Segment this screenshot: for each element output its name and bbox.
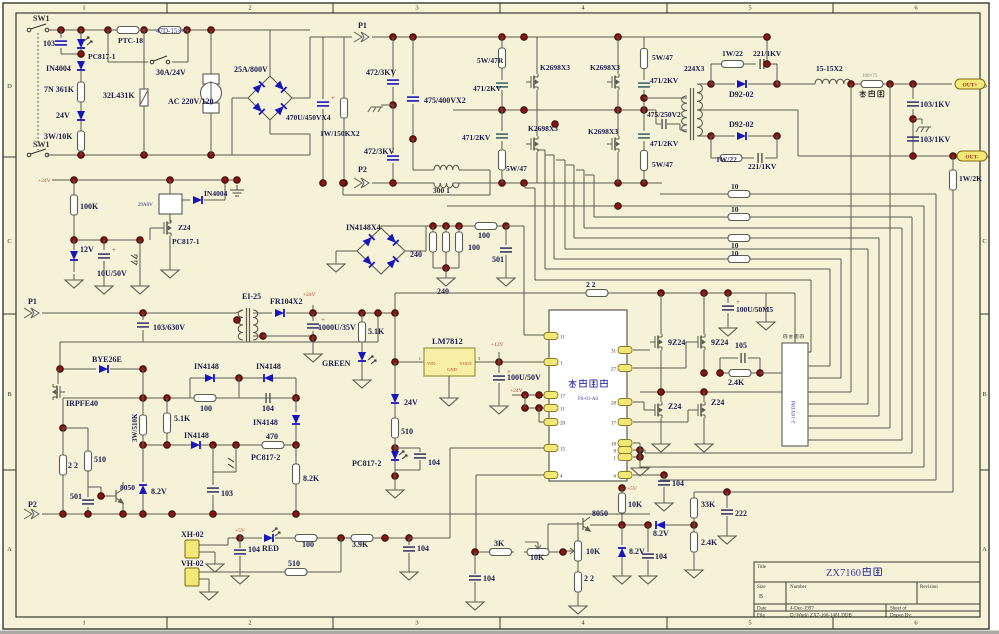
junction: [359, 310, 366, 317]
svg-text:103/1KV: 103/1KV: [920, 135, 950, 144]
snubber lower 1W/22: [710, 136, 712, 158]
junction: [293, 511, 300, 518]
wire bypass switch 30A/24V: [107, 30, 109, 62]
wire module pin20 row: [539, 421, 544, 423]
svg-text:510: 510: [288, 559, 300, 568]
junction: [521, 107, 528, 114]
diode IN4004 relay clamp: [182, 199, 190, 201]
pin 27 right: [618, 365, 632, 372]
main transformer T1: [682, 96, 687, 132]
wire base network: [100, 487, 102, 496]
junction: [910, 116, 917, 123]
svg-text:Z24: Z24: [668, 402, 681, 411]
svg-text:24V: 24V: [404, 398, 418, 407]
junction: [140, 310, 147, 317]
svg-text:EI-25: EI-25: [242, 292, 261, 301]
wire P1 lower rail: [42, 312, 236, 314]
resistor PTC-18: [110, 27, 146, 34]
transistor 9Z24 a: [650, 334, 662, 350]
ground 8.2V bottom: [613, 570, 631, 584]
svg-text:2.4K: 2.4K: [728, 378, 745, 387]
wire LM7812 out: [475, 361, 544, 363]
resistor 2.2 left: [62, 428, 64, 450]
ground 222: [718, 530, 736, 544]
bus descent x830: [829, 269, 831, 366]
svg-text:104: 104: [417, 544, 429, 553]
IC interface header: [782, 343, 808, 446]
resistor 510 left: [63, 427, 88, 429]
resistor 240 c: [456, 226, 463, 258]
ground pin cluster: [631, 462, 649, 476]
svg-text:7N 361K: 7N 361K: [44, 85, 75, 94]
bus bottom line y453: [645, 452, 912, 454]
junction: [708, 133, 715, 140]
svg-text:5: 5: [748, 5, 751, 12]
IC control module box: [549, 310, 627, 481]
junction: [105, 27, 112, 34]
wire gate drive stair 6: [583, 170, 585, 228]
wire pot to rheostat: [552, 551, 566, 553]
switch: [150, 56, 170, 64]
interface stub y378: [808, 377, 841, 379]
junction: [560, 549, 567, 556]
junction: [615, 180, 622, 187]
junction: [392, 359, 399, 366]
wire sense bottom rail: [433, 267, 459, 269]
junction: [164, 395, 171, 402]
top margin tick 2: [332, 3, 334, 13]
capacitor 221/1KV upper: [748, 63, 756, 65]
svg-text:100U/50V: 100U/50V: [507, 373, 541, 382]
junction: [236, 375, 243, 382]
svg-text:5W/47: 5W/47: [652, 53, 673, 62]
svg-text:K2698X3: K2698X3: [540, 63, 570, 72]
capacitor 472/3KV upper: [392, 37, 394, 77]
diode IN4004 input: [77, 61, 85, 70]
capacitor 471/2KV snubber 2: [501, 110, 503, 131]
wire to chassis ground output: [913, 118, 922, 120]
svg-text:4-Dec-1997: 4-Dec-1997: [790, 607, 814, 612]
ground 100U/50M5: [719, 322, 737, 336]
svg-text:510: 510: [94, 455, 106, 464]
junction: [406, 535, 413, 542]
pin 17 right: [618, 419, 632, 426]
svg-text:P2: P2: [28, 500, 37, 509]
junction: [615, 107, 622, 114]
junction: [503, 223, 510, 230]
svg-text:471/2KV: 471/2KV: [650, 76, 679, 85]
interface stub y428: [808, 427, 890, 429]
chassis ground mains filter: [368, 107, 383, 112]
bus descent x852 from output rail: [850, 84, 852, 392]
bus run 6 y249: [565, 248, 868, 250]
svg-text:470: 470: [266, 432, 278, 441]
pin 17 left: [544, 392, 558, 399]
wire led row: [320, 537, 348, 539]
port arrow P1: [354, 32, 369, 42]
wire VH row join: [310, 571, 341, 573]
junction: [641, 95, 648, 102]
wire top loop y342: [60, 341, 378, 343]
wire to 104 right: [376, 537, 410, 539]
svg-text:30A/24V: 30A/24V: [156, 68, 186, 77]
resistor 2.4K driver: [720, 370, 760, 377]
svg-text:3: 3: [415, 5, 418, 12]
wire row 445: [143, 444, 296, 446]
junction: [60, 511, 67, 518]
resistor 33K: [691, 496, 698, 520]
svg-text:RED: RED: [262, 544, 279, 553]
junction: [757, 370, 764, 377]
wire primary continues: [453, 182, 459, 184]
svg-text:10K: 10K: [628, 500, 643, 509]
svg-text:D92-02: D92-02: [729, 90, 753, 99]
potentiometer 10K: [524, 549, 552, 556]
svg-text:B: B: [759, 594, 763, 600]
junction: [210, 442, 217, 449]
capacitor 470U/450VX4: [322, 37, 324, 99]
bus bottom line y480: [660, 479, 936, 481]
diode IN4148 row445: [191, 441, 200, 449]
resistor 1W/150KX2: [343, 37, 345, 96]
regulator LM7812: [424, 348, 475, 376]
junction: [375, 310, 382, 317]
svg-text:IN4148: IN4148: [194, 362, 219, 371]
diode D92-02 lower: [711, 135, 735, 137]
svg-text:103/1KV: 103/1KV: [920, 100, 950, 109]
bus descent x868: [867, 249, 869, 404]
capacitor 103/630V: [142, 313, 144, 320]
left margin tick 2: [3, 313, 16, 315]
wire VH pin2: [199, 578, 209, 580]
junction: [71, 237, 78, 244]
label shunt chinese: [859, 90, 866, 97]
wire bottom AC rail: [47, 154, 310, 156]
ground CT bridge: [327, 258, 345, 272]
svg-text:10: 10: [731, 205, 739, 214]
port arrow P2 lower: [24, 509, 39, 519]
ground sense resistors: [437, 272, 455, 286]
ground sense: [445, 268, 447, 272]
transformer EI-25: [238, 310, 243, 340]
junction: [390, 34, 397, 41]
wire 9Z24a gate: [633, 349, 650, 351]
junction: [234, 317, 241, 324]
junction: [210, 511, 217, 518]
svg-text:32L431K: 32L431K: [103, 91, 135, 100]
svg-text:Drawn By:: Drawn By:: [890, 614, 912, 619]
zener 24V aux: [394, 362, 396, 394]
junction: [78, 27, 85, 34]
junction: [140, 395, 147, 402]
wire CT secondary return: [343, 194, 490, 196]
bottom margin tick 2: [332, 617, 334, 629]
svg-text:471/2KV: 471/2KV: [650, 139, 679, 148]
wire CT secondary right: [459, 169, 490, 171]
svg-text:P2: P2: [358, 165, 367, 174]
svg-text:104: 104: [262, 404, 274, 413]
transistor K2698X3 Q1: [526, 74, 538, 90]
svg-text:Size: Size: [757, 585, 766, 590]
transistor Z24 relay driver: [159, 220, 171, 236]
junction: [645, 522, 652, 529]
junction: [57, 366, 64, 373]
interface stub y416: [808, 415, 879, 417]
junction: [98, 493, 105, 500]
ground 104 led: [231, 570, 249, 584]
capacitor 501: [505, 226, 507, 245]
svg-text:OUT+: OUT+: [962, 83, 977, 89]
junction: [341, 180, 348, 187]
svg-text:IN4004: IN4004: [204, 189, 228, 198]
svg-text:C: C: [7, 238, 11, 245]
wire 239 vertical: [238, 378, 240, 398]
junction: [774, 133, 781, 140]
ground CT bridge: [336, 250, 357, 252]
wire module pin15 wire: [450, 447, 544, 449]
svg-text:+24V: +24V: [303, 292, 316, 298]
transistor K2698X3 Q3: [526, 136, 538, 152]
junction: [410, 34, 417, 41]
diode IN4148 vertical: [295, 398, 297, 412]
junction: [724, 489, 731, 496]
junction: [390, 102, 397, 109]
svg-text:104: 104: [248, 545, 260, 554]
svg-text:472/3KV: 472/3KV: [366, 68, 396, 77]
svg-text:GND: GND: [447, 367, 457, 372]
opto PC817-2 LED side: [394, 448, 396, 451]
junction: [717, 370, 724, 377]
switch: [27, 149, 49, 157]
svg-text:100×75: 100×75: [862, 74, 878, 79]
svg-text:8050: 8050: [120, 483, 135, 492]
wire gate drive stair 7: [593, 175, 595, 217]
junction: [140, 366, 147, 373]
junction: [950, 153, 957, 160]
junction: [141, 152, 148, 159]
interface stub y392: [808, 391, 851, 393]
wire Z24a gate: [633, 401, 644, 403]
junction: [85, 511, 92, 518]
wire secondary bottom tap: [697, 135, 711, 137]
svg-text:11: 11: [560, 408, 565, 413]
bottom margin tick 3: [499, 617, 501, 629]
transistor K2698X3 Q4: [607, 136, 619, 152]
bus bottom line y467: [640, 466, 924, 468]
capacitor 471/2KV snubber 1: [501, 70, 503, 80]
capacitor 104 led: [239, 538, 241, 548]
svg-text:10: 10: [731, 249, 739, 258]
bus descent x879: [878, 238, 880, 416]
transistor: [109, 489, 123, 503]
wire 296 vertical: [295, 378, 297, 398]
svg-text:10K: 10K: [586, 547, 601, 556]
junction: [701, 290, 708, 297]
ground 104 bottom c: [639, 570, 657, 584]
wire P2 lower rail: [42, 513, 650, 515]
svg-text:475/400VX2: 475/400VX2: [424, 96, 466, 105]
junction: [522, 392, 529, 399]
bridge IN4148X4: [357, 228, 405, 274]
wire gate drive stair 3: [553, 155, 555, 259]
svg-text:1W/22: 1W/22: [722, 49, 743, 58]
svg-text:8.2K: 8.2K: [303, 474, 320, 483]
diode D92-02 upper: [711, 83, 735, 85]
resistor 5W/47R snubber 1: [501, 37, 503, 46]
varistor 32L431K: [143, 30, 145, 89]
svg-text:103: 103: [43, 39, 55, 48]
junction: [137, 237, 144, 244]
right margin tick 3: [980, 469, 989, 471]
current transformer 300:1 secondary: [434, 165, 459, 170]
bus descent x912: [911, 217, 913, 453]
capacitor 100U/50V: [498, 362, 500, 373]
junction: [499, 34, 506, 41]
junction: [141, 27, 148, 34]
resistor 240 b: [443, 226, 450, 258]
svg-text:Z24: Z24: [711, 398, 724, 407]
pin 31 right: [618, 347, 632, 354]
svg-text:PS-01-A0: PS-01-A0: [578, 397, 599, 402]
junction: [60, 425, 67, 432]
wire 8050 base chain: [577, 522, 579, 536]
svg-text:24V: 24V: [56, 111, 70, 120]
pin 4 left: [544, 472, 558, 479]
wire 1W/2K down to feedback: [952, 192, 954, 492]
svg-text:+12V: +12V: [491, 342, 504, 348]
capacitor 103 mid: [212, 445, 214, 485]
bus run 5 y238 with resistor 10: [574, 237, 729, 239]
diode IN4148 row378 right: [264, 374, 273, 382]
zener 12V: [73, 240, 75, 250]
zener 8.2V bottom: [621, 525, 623, 545]
junction: [496, 359, 503, 366]
junction: [615, 203, 622, 210]
svg-text:104: 104: [483, 574, 495, 583]
top margin tick 1: [166, 3, 168, 13]
wire to chassis ground: [381, 104, 393, 106]
svg-text:8.2V: 8.2V: [151, 487, 167, 496]
wire bridge out right: [405, 250, 426, 252]
wire gate drive stair 1: [534, 188, 536, 280]
ground XH: [206, 558, 224, 572]
junction: [78, 152, 85, 159]
svg-text:VOUT: VOUT: [460, 361, 473, 366]
svg-text:2 2: 2 2: [586, 280, 596, 289]
junction: [774, 81, 781, 88]
wire 8050 collector row: [590, 524, 652, 526]
svg-text:105: 105: [735, 341, 747, 350]
capacitor 221/1KV lower: [746, 157, 754, 159]
svg-text:103: 103: [221, 489, 233, 498]
wire P2 rail: [372, 182, 434, 184]
wire 8050 base lead: [548, 523, 576, 525]
svg-text:10U/50V: 10U/50V: [97, 269, 127, 278]
junction: [708, 81, 715, 88]
svg-text:18: 18: [611, 443, 617, 448]
junction: [234, 177, 241, 184]
svg-text:LM7812: LM7812: [432, 336, 463, 346]
junction: [641, 107, 648, 114]
wire aux dc rail: [313, 312, 395, 314]
wire rectifier output join: [777, 83, 815, 85]
junction: [164, 442, 171, 449]
label control module: [569, 379, 577, 387]
svg-text:IRPFE40: IRPFE40: [66, 399, 98, 408]
wire feedback node: [694, 491, 953, 493]
svg-text:Number: Number: [790, 585, 807, 590]
pin 8 right: [618, 447, 632, 454]
wire Z24b source: [703, 418, 705, 438]
svg-text:3W/510K: 3W/510K: [131, 413, 139, 442]
diode FR104X2: [253, 312, 272, 314]
svg-text:5W/47: 5W/47: [506, 164, 527, 173]
junction: [619, 485, 626, 492]
svg-text:3K: 3K: [494, 539, 505, 548]
wire VH pin1: [199, 571, 282, 573]
junction: [701, 370, 708, 377]
title block: [754, 562, 980, 617]
svg-text:1: 1: [82, 620, 85, 627]
wire gate drive stair 4: [564, 160, 566, 249]
junction: [443, 223, 450, 230]
switch: [27, 24, 49, 32]
wire CT link from bulk caps: [412, 139, 414, 170]
junction: [615, 34, 622, 41]
transistor Z24 b: [703, 392, 705, 402]
junction: [637, 447, 644, 454]
resistor 240 a: [430, 226, 437, 258]
bus run 8 y269: [545, 268, 830, 270]
svg-text:1: 1: [419, 356, 421, 361]
relay coil box: [169, 180, 171, 194]
bottom margin tick 4: [666, 617, 668, 629]
port arrow P2: [354, 178, 369, 188]
zener 8.2V left: [142, 440, 144, 445]
junction: [725, 290, 732, 297]
junction: [184, 27, 191, 34]
wire cluster to bus line y453: [640, 449, 645, 451]
wire 9Z24b gate: [633, 367, 686, 369]
svg-text:Sheet of: Sheet of: [890, 607, 907, 612]
wire module pin4 vertical: [475, 475, 477, 552]
junction: [208, 27, 215, 34]
capacitor 501 left: [87, 487, 89, 497]
svg-text:B: B: [7, 391, 12, 398]
svg-text:3W/10K: 3W/10K: [44, 132, 73, 141]
transistor Z24 a body: [650, 402, 662, 418]
junction: [71, 177, 78, 184]
capacitor 472/3KV lower: [392, 105, 394, 153]
resistor 5W/47 snubber 2: [499, 148, 506, 172]
output flag: [957, 151, 987, 161]
svg-text:100: 100: [302, 540, 314, 549]
capacitor 471/2KV col2 lower: [643, 110, 645, 131]
junction: [619, 522, 626, 529]
svg-text:25A/800V: 25A/800V: [234, 65, 268, 74]
junction: [910, 153, 917, 160]
wire aux 24V run right: [608, 292, 795, 294]
svg-text:PC817-2: PC817-2: [251, 453, 280, 462]
transistor IRPFE40: [53, 384, 65, 400]
resistor 1W/2K: [952, 156, 954, 168]
wire aux to LM7812: [394, 313, 396, 362]
svg-text:1W/2K: 1W/2K: [959, 174, 982, 183]
resistor 3W/10K: [78, 127, 85, 155]
svg-text:P1: P1: [28, 297, 37, 306]
junction: [169, 511, 176, 518]
svg-text:29A0V: 29A0V: [138, 203, 153, 208]
